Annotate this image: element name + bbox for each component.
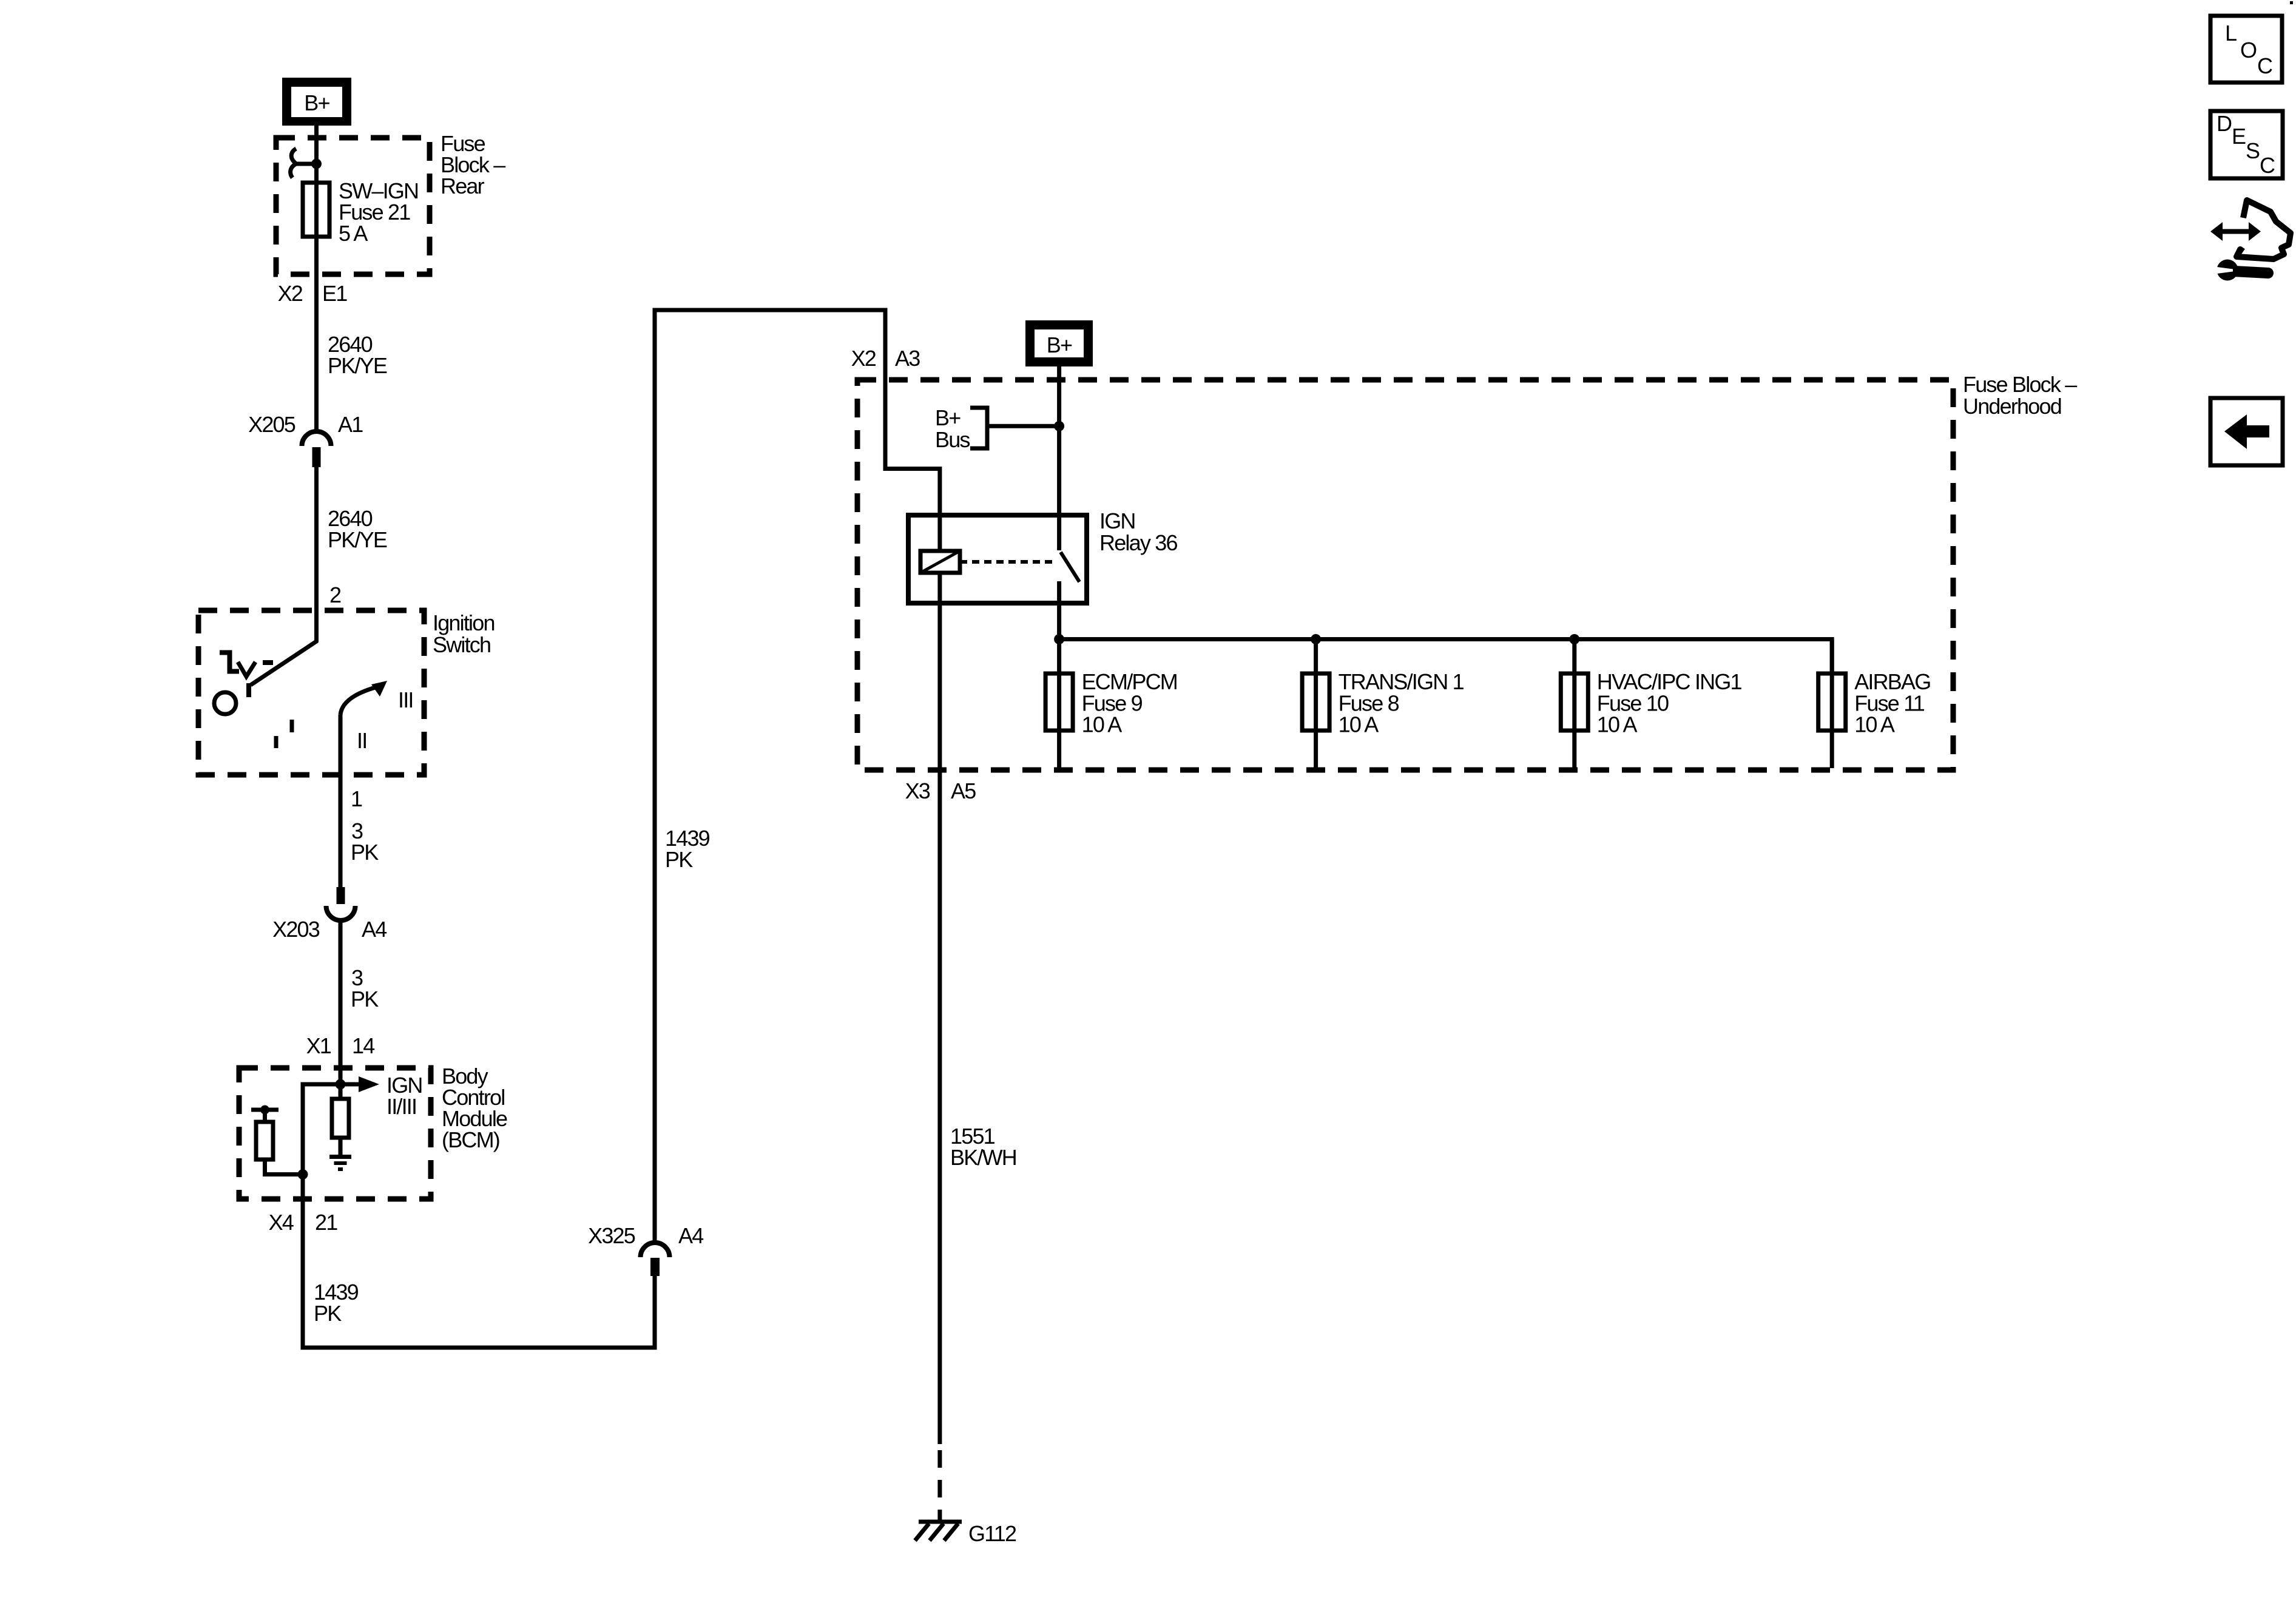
svg-text:5 A: 5 A bbox=[339, 221, 368, 246]
svg-text:1: 1 bbox=[351, 786, 362, 811]
wire BCM input bbox=[339, 1068, 343, 1099]
position I tick marks bbox=[276, 720, 292, 748]
power symbol B+ (rear feed) bbox=[282, 78, 351, 126]
wire B+ to Fuse 21 bbox=[314, 126, 319, 183]
svg-text:X2: X2 bbox=[278, 281, 303, 306]
svg-text:2: 2 bbox=[329, 582, 341, 607]
svg-text:X203: X203 bbox=[272, 917, 320, 942]
svg-text:10 A: 10 A bbox=[1597, 712, 1638, 737]
junction node relay output bbox=[1054, 634, 1064, 644]
svg-text:X2: X2 bbox=[851, 346, 876, 371]
junction node fuse 10 bbox=[1569, 634, 1579, 644]
LOC navigation icon bbox=[2210, 16, 2282, 83]
svg-text:X205: X205 bbox=[248, 412, 295, 437]
wire B+ to relay 36 bbox=[1057, 366, 1061, 515]
pin labels X3 / A5 bbox=[905, 778, 976, 803]
junction node BCM output bbox=[298, 1169, 308, 1180]
fuse block underhood dashed box bbox=[857, 380, 1953, 770]
svg-text:L: L bbox=[2225, 21, 2237, 46]
ignition key symbol bbox=[220, 653, 273, 677]
svg-text:PK/YE: PK/YE bbox=[328, 353, 387, 378]
wire relay coil to ground bbox=[937, 573, 942, 1520]
junction node B+ bus bbox=[1054, 421, 1064, 431]
svg-text:X1: X1 bbox=[306, 1033, 331, 1058]
fuse bus wire bbox=[1059, 640, 1832, 674]
svg-text:X3: X3 bbox=[905, 778, 930, 803]
wire ignition switch to X203 bbox=[339, 715, 343, 887]
ground G112 bbox=[915, 1521, 1016, 1546]
svg-text:Relay 36: Relay 36 bbox=[1099, 530, 1177, 555]
svg-text:Underhood: Underhood bbox=[1963, 394, 2061, 419]
relay switch contact bbox=[1059, 515, 1079, 639]
wire label 3 PK (upper) bbox=[351, 819, 379, 865]
fuse Fuse 11 AIRBAG 10A bbox=[1818, 640, 1931, 769]
diagnostic wrench icon bbox=[2210, 200, 2291, 281]
scan speck top right bbox=[2290, 1, 2293, 4]
pin labels X2 / E1 bbox=[278, 281, 348, 306]
DESC navigation icon bbox=[2210, 111, 2283, 178]
svg-text:10 A: 10 A bbox=[1339, 712, 1379, 737]
fuse block rear label bbox=[441, 131, 505, 198]
pin labels X4 / 21 bbox=[269, 1210, 338, 1235]
svg-text:10 A: 10 A bbox=[1082, 712, 1123, 737]
svg-text:O: O bbox=[2240, 38, 2257, 62]
svg-text:II: II bbox=[357, 728, 366, 753]
relay 36 box bbox=[908, 515, 1087, 603]
body control module label bbox=[442, 1064, 507, 1152]
fuse F21 value label bbox=[339, 178, 418, 246]
svg-text:S: S bbox=[2246, 138, 2260, 163]
fuse Fuse 9 ECM/PCM 10A bbox=[1045, 640, 1177, 769]
relay coil bbox=[920, 515, 960, 573]
relay 36 label bbox=[1099, 508, 1177, 555]
back arrow navigation icon bbox=[2210, 398, 2283, 465]
wire X203 to BCM bbox=[339, 920, 343, 1068]
connector X325 pin A4 bbox=[588, 1223, 703, 1276]
position O (lock) circle bbox=[214, 692, 236, 714]
svg-text:A4: A4 bbox=[362, 917, 387, 942]
connector X205 pin A1 bbox=[248, 412, 363, 467]
svg-text:E: E bbox=[2232, 124, 2246, 149]
svg-text:PK: PK bbox=[351, 840, 379, 865]
wire BCM output to X325 bbox=[303, 1199, 655, 1348]
svg-text:II/III: II/III bbox=[387, 1094, 416, 1119]
fuse Fuse 8 TRANS/IGN 1 10A bbox=[1302, 640, 1464, 769]
svg-text:X325: X325 bbox=[588, 1223, 635, 1248]
svg-text:Rear: Rear bbox=[441, 174, 485, 198]
wire label 1551 BK/WH bbox=[950, 1124, 1016, 1170]
junction node fuse 8 bbox=[1311, 634, 1321, 644]
svg-text:Fuse Block –: Fuse Block – bbox=[1963, 372, 2077, 397]
power symbol B+ (underhood) bbox=[1025, 320, 1093, 366]
svg-text:G112: G112 bbox=[968, 1521, 1016, 1546]
ignition switch movable contact lever bbox=[249, 641, 317, 697]
svg-text:PK/YE: PK/YE bbox=[328, 527, 387, 552]
svg-text:14: 14 bbox=[352, 1033, 374, 1058]
svg-text:X4: X4 bbox=[269, 1210, 294, 1235]
svg-text:PK: PK bbox=[665, 847, 693, 872]
svg-text:C: C bbox=[2260, 153, 2275, 178]
B+ Bus tap bbox=[935, 405, 1059, 452]
fuse Fuse 10 HVAC/IPC ING1 10A bbox=[1561, 640, 1741, 769]
ground symbol in BCM bbox=[329, 1157, 351, 1170]
svg-text:A5: A5 bbox=[951, 778, 976, 803]
internal supply bar with resistor in BCM bbox=[251, 1106, 303, 1175]
wire label 2640 PK/YE (lower) bbox=[328, 506, 387, 552]
wire label 1439 PK (riser) bbox=[665, 826, 710, 872]
wire label 3 PK (lower) bbox=[351, 965, 379, 1011]
wire Fuse 21 to X205 bbox=[314, 237, 319, 432]
relay linkage dashed line bbox=[960, 560, 1057, 564]
svg-text:10 A: 10 A bbox=[1854, 712, 1895, 737]
svg-text:III: III bbox=[398, 687, 413, 712]
svg-text:E1: E1 bbox=[322, 281, 347, 306]
connector X203 pin A4 bbox=[272, 887, 387, 942]
svg-text:A4: A4 bbox=[678, 1223, 703, 1248]
wire label 2640 PK/YE (upper) bbox=[328, 332, 387, 378]
fuse block underhood label bbox=[1963, 372, 2077, 419]
fuse block rear dashed box bbox=[276, 138, 430, 274]
bus clip symbol inside rear fuse block bbox=[291, 149, 316, 178]
ignition switch dashed box bbox=[198, 610, 424, 775]
pin labels X2 / A3 bbox=[851, 346, 920, 371]
svg-text:IGN: IGN bbox=[1099, 508, 1135, 533]
pin labels X1 / 14 bbox=[306, 1033, 375, 1058]
junction node BCM input bbox=[336, 1079, 346, 1090]
svg-text:B+: B+ bbox=[935, 405, 961, 430]
fuse F21 SW-IGN 5A bbox=[303, 183, 329, 237]
wire label 1439 PK (left) bbox=[314, 1280, 359, 1326]
resistor in BCM bbox=[332, 1084, 349, 1155]
svg-text:Ignition: Ignition bbox=[433, 610, 495, 635]
ignition switch label bbox=[433, 610, 495, 657]
svg-text:B+: B+ bbox=[1047, 333, 1072, 357]
svg-text:A3: A3 bbox=[895, 346, 920, 371]
body control module dashed box bbox=[239, 1068, 431, 1199]
svg-text:C: C bbox=[2257, 53, 2272, 78]
svg-text:Bus: Bus bbox=[935, 427, 970, 452]
svg-text:BK/WH: BK/WH bbox=[950, 1145, 1016, 1170]
svg-text:21: 21 bbox=[315, 1210, 337, 1235]
svg-text:D: D bbox=[2217, 111, 2232, 136]
svg-text:(BCM): (BCM) bbox=[442, 1127, 499, 1152]
svg-text:PK: PK bbox=[351, 987, 379, 1011]
svg-text:A1: A1 bbox=[338, 412, 363, 437]
svg-text:Switch: Switch bbox=[433, 632, 490, 657]
wire X325 riser to underhood fuse block bbox=[655, 310, 940, 1243]
junction node on B+ feed bbox=[311, 159, 322, 169]
wire X205 to ignition switch bbox=[314, 467, 319, 642]
wire BCM left branch bbox=[303, 1084, 340, 1199]
signal arrow IGN II/III bbox=[340, 1073, 422, 1119]
svg-text:PK: PK bbox=[314, 1301, 342, 1326]
svg-text:B+: B+ bbox=[304, 90, 329, 115]
ignition switch wiper arm with arrowhead bbox=[340, 681, 387, 715]
